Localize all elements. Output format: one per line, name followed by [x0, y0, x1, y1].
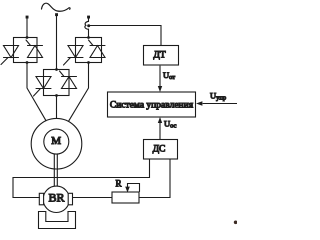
supply terminal L3	[87, 16, 90, 19]
thyristor VS6	[60, 71, 77, 89]
Uos arrowhead	[158, 117, 162, 123]
svg-text:R: R	[116, 179, 122, 189]
svg-text:М: М	[51, 135, 61, 147]
supply terminal L1	[26, 16, 29, 19]
thyristor group TP2 box	[76, 38, 102, 63]
supply terminal L2	[55, 13, 58, 16]
wire CT to DT box	[89, 26, 161, 46]
junction dot CT pickoff	[87, 24, 90, 27]
thyristor VS4	[89, 40, 106, 58]
svg-text:ДС: ДС	[153, 145, 166, 155]
motor M inner circle	[44, 129, 69, 154]
wiper arrow of R	[128, 184, 140, 192]
Uupr arrow wire	[203, 103, 237, 105]
svg-text:BR: BR	[48, 191, 64, 205]
junction dot TP2 bottom	[87, 61, 90, 64]
brush left	[39, 193, 43, 205]
stand bracket	[39, 212, 76, 229]
Uot arrowhead	[158, 86, 162, 92]
junction dot TP3 top	[55, 68, 58, 71]
thyristor VS1	[1, 46, 19, 65]
junction dot TP1 bottom	[26, 61, 29, 64]
current transformer loop	[85, 21, 89, 29]
AC supply symbol ~	[42, 3, 71, 11]
junction dot TP1 top	[26, 36, 29, 39]
tachogenerator BR circle	[43, 186, 69, 212]
thyristor group TP1 box	[14, 38, 38, 63]
brush right	[68, 193, 72, 205]
control system box	[108, 92, 196, 117]
svg-text:Система управления: Система управления	[110, 101, 194, 111]
junction dot TP3 bottom	[55, 94, 58, 97]
wire L2	[56, 15, 58, 70]
thyristor group TP3 box	[44, 70, 70, 96]
wire TP2 to motor	[69, 63, 89, 122]
shaft double line	[53, 154, 55, 186]
thyristor VS3	[64, 46, 84, 66]
motor M outer circle	[31, 118, 82, 169]
wire L3 upper	[88, 17, 90, 22]
wire L1	[26, 17, 28, 38]
DS box	[144, 140, 178, 160]
wire TP3 to motor	[56, 96, 58, 119]
thyristor VS2	[26, 40, 43, 58]
Uos arrow wire	[159, 123, 161, 140]
svg-text:Uос: Uос	[164, 119, 177, 130]
junction dot TP2 top	[87, 36, 90, 39]
wiper arrowhead	[125, 187, 130, 193]
svg-text:ДТ: ДТ	[153, 51, 165, 61]
svg-text:Uот: Uот	[163, 70, 175, 81]
scan speck bottom right	[234, 221, 238, 225]
svg-text:Uупр: Uупр	[210, 91, 226, 102]
Uot arrow wire	[159, 66, 161, 87]
DT box	[144, 46, 179, 66]
thyristor VS5	[34, 77, 52, 97]
wire L3 lower	[88, 29, 90, 37]
wire TP1 to motor	[27, 63, 46, 121]
feedback wire DS to BR	[13, 159, 150, 198]
wire R to DS	[139, 159, 170, 198]
resistor R	[112, 192, 139, 203]
Uupr arrowhead	[196, 101, 202, 106]
wire BR to R	[73, 197, 113, 199]
